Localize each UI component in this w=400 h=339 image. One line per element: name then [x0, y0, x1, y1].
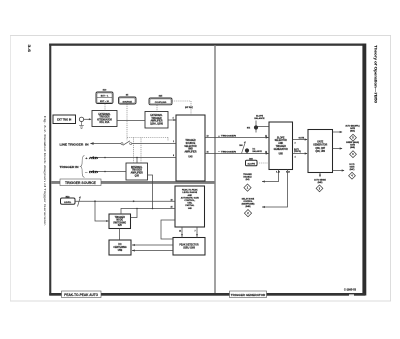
frame top border: [49, 44, 365, 46]
svg-text:Q90, U80: Q90, U80: [315, 151, 325, 153]
switch S5 SOURCE: [119, 95, 137, 105]
wire attenuator to ext amplifier: [117, 120, 145, 122]
diamond delay mode: [244, 210, 251, 217]
box internal trigger amplifier: [126, 163, 148, 180]
switch S25 COUPLING: [149, 96, 172, 105]
svg-text:PARTIAL: PARTIAL: [185, 204, 195, 207]
svg-text:AMPLIFIER: AMPLIFIER: [150, 120, 162, 123]
svg-text:R75: R75: [247, 127, 250, 129]
diamond sweep gate: [350, 151, 357, 158]
svg-text:GENERATOR: GENERATOR: [313, 144, 328, 147]
switch contacts line trigger: [121, 141, 132, 146]
ground symbol: [79, 122, 84, 129]
wire U85 gate out to gate generator: [293, 139, 308, 141]
svg-text:Theory of Operation—7B50: Theory of Operation—7B50: [374, 45, 378, 103]
svg-text:AND: AND: [188, 194, 193, 197]
wire auto sense stub: [319, 173, 321, 177]
svg-text:AMPLIFIER: AMPLIFIER: [184, 151, 196, 154]
svg-text:COUPLING: COUPLING: [155, 102, 167, 104]
box peak detector: [173, 238, 205, 256]
svg-text:EXTERNAL: EXTERNAL: [98, 113, 111, 116]
wire trigger mode top to U5B pin15: [121, 209, 175, 215]
wire level line to U5B pin18: [75, 200, 175, 202]
svg-text:BALANCE: BALANCE: [254, 117, 265, 120]
section label TRIGGER SOURCE: [60, 179, 101, 186]
wire U5B bottom pin to peak detector left: [181, 227, 183, 238]
dashed coupling to U45 top: [172, 101, 191, 115]
pot dc balance dot: [245, 148, 249, 152]
section divider vertical: [214, 45, 215, 293]
svg-text:(B4C): (B4C): [350, 168, 355, 171]
svg-text:S10: S10: [103, 90, 108, 92]
switch S10 ext div 10: [96, 90, 113, 104]
svg-text:TRIGGER: TRIGGER: [115, 217, 126, 219]
pot R50 level wiper: [78, 197, 81, 207]
pot slope balance dot: [254, 125, 258, 129]
svg-text:AND: AND: [188, 148, 193, 151]
dashed linkage drop a: [133, 138, 135, 163]
svg-text:TRIGGER SOURCE: TRIGGER SOURCE: [65, 181, 97, 185]
svg-text:7: 7: [195, 231, 196, 233]
svg-text:U85: U85: [279, 153, 284, 155]
dashed S10 to attenuator: [104, 104, 106, 111]
svg-text:3: 3: [295, 142, 296, 144]
svg-text:14: 14: [179, 230, 182, 233]
wire U5B bottom pin to peak detector right: [196, 227, 198, 238]
svg-text:GATE: GATE: [299, 136, 305, 139]
svg-text:SOURCE: SOURCE: [123, 101, 133, 103]
wire gate out auto: [333, 131, 343, 133]
wire gate out sweep: [333, 148, 343, 150]
svg-text:18: 18: [171, 199, 173, 201]
svg-text:SWITCHING: SWITCHING: [113, 222, 126, 224]
svg-text:SLOPE: SLOPE: [277, 137, 285, 139]
svg-text:MODE: MODE: [116, 220, 123, 222]
svg-text:16: 16: [207, 151, 209, 153]
svg-text:13: 13: [207, 135, 209, 137]
svg-text:− TRIGGER: − TRIGGER: [218, 152, 237, 154]
box external trigger amplifier: [145, 112, 168, 129]
svg-text:(B4A): (B4A): [350, 130, 355, 133]
diamond dlyd gate: [349, 172, 356, 179]
connector circle: [79, 117, 83, 121]
svg-text:TRIGGER: TRIGGER: [151, 118, 162, 120]
page edge shadow right: [390, 36, 392, 302]
svg-text:2: 2: [247, 211, 249, 215]
dashed source linkage horizontal: [127, 137, 168, 139]
section label PEAK-TO-PEAK AUTO: [62, 291, 102, 298]
svg-text:LEVEL: LEVEL: [64, 202, 72, 204]
svg-text:SELECTOR: SELECTOR: [275, 140, 288, 142]
dashed slope switch to U85: [257, 162, 269, 164]
diamond trigger disable: [244, 184, 251, 191]
svg-text:Q80, Q87: Q80, Q87: [315, 148, 326, 150]
svg-text:SOURCE: SOURCE: [186, 143, 196, 145]
wire gate out dlyd: [333, 170, 345, 172]
switch S60 SLOPE: [246, 158, 258, 166]
svg-text:EXT TRIG IN: EXT TRIG IN: [57, 119, 71, 122]
brace trigger in: [80, 156, 84, 178]
svg-text:EXT ÷ 10: EXT ÷ 10: [100, 100, 109, 103]
svg-text:3: 3: [319, 187, 321, 190]
svg-text:5: 5: [352, 137, 354, 140]
frame left border: [49, 44, 51, 296]
diamond auto sense: [316, 185, 323, 192]
wire junction down to trigger mode box: [95, 201, 108, 221]
svg-text:C-1995-53: C-1995-53: [344, 288, 357, 292]
switch R50 LEVEL: [61, 196, 76, 204]
svg-text:PEAK DETECTOR: PEAK DETECTOR: [179, 244, 199, 247]
svg-text:14: 14: [265, 150, 268, 153]
box U5B peak-to-peak level range: [175, 186, 205, 227]
svg-text:Fig. 3-2. Detailed block diagr: Fig. 3-2. Detailed block diagram of Trig…: [43, 116, 46, 227]
svg-text:1: 1: [247, 186, 249, 190]
svg-text:GATE: GATE: [317, 140, 324, 143]
wire U85 to trigger disable: [262, 170, 279, 182]
svg-text:SELECTOR: SELECTOR: [184, 146, 197, 148]
wire minus sig: [91, 171, 126, 173]
box U45 trigger source selector: [176, 115, 205, 181]
wire connector to attenuator: [84, 118, 91, 120]
svg-text:R10, R1A: R10, R1A: [100, 121, 110, 124]
dashed source switch linkage down: [126, 104, 128, 140]
svg-text:TRIGGER: TRIGGER: [276, 146, 287, 148]
svg-text:(B4D): (B4D): [318, 181, 323, 184]
frame bottom border: [49, 293, 365, 296]
svg-text:TRIGGER IN: TRIGGER IN: [60, 166, 79, 169]
page edge shadow top: [10, 35, 391, 37]
wire slope balance pot stem: [255, 121, 257, 133]
svg-text:PEAK-TO-PEAK: PEAK-TO-PEAK: [182, 189, 198, 192]
wire dc balance dot stem: [246, 151, 248, 154]
junction dots: [94, 157, 153, 210]
svg-text:ATTENUATOR: ATTENUATOR: [97, 118, 112, 121]
box external trigger attenuator: [92, 111, 117, 127]
dashed linkage drop b: [140, 138, 142, 163]
svg-text:6, 10: 6, 10: [276, 171, 280, 173]
dashed coupling to ext amplifier: [156, 105, 158, 112]
wire minus trigger: [205, 153, 269, 155]
svg-text:(B4): (B4): [246, 178, 250, 181]
bottom border notch: [349, 294, 354, 295]
svg-text:EXTERNAL: EXTERNAL: [150, 114, 163, 117]
wire plus sig stub to internal amp: [136, 158, 138, 164]
svg-text:(B4B): (B4B): [245, 205, 250, 208]
pot dc balance wiper: [242, 142, 246, 154]
svg-text:+ TRIGGER: + TRIGGER: [218, 136, 237, 138]
svg-text:TRIGGER: TRIGGER: [185, 140, 196, 142]
wire plus sig: [91, 157, 176, 159]
wire U85 to delay mode control: [262, 170, 288, 208]
wire plus trigger: [205, 137, 269, 139]
box dc centering: [109, 240, 131, 255]
svg-text:PEAK-TO-PEAK AUTO: PEAK-TO-PEAK AUTO: [64, 293, 98, 297]
svg-text:3-6: 3-6: [27, 45, 32, 54]
wire trigger mode bottom to dc centering: [119, 229, 121, 241]
svg-text:CENTERING: CENTERING: [113, 247, 127, 249]
svg-text:8: 8: [173, 155, 174, 157]
svg-text:AUTOMATIC GAIN: AUTOMATIC GAIN: [181, 196, 200, 199]
box gate generator: [308, 130, 333, 173]
svg-text:6: 6: [352, 153, 354, 156]
wire ext amplifier to U45 pin4: [168, 119, 176, 121]
svg-text:SLOPE: SLOPE: [247, 164, 255, 166]
wire peak detector to dc centering lower: [132, 250, 173, 252]
svg-text:TRIGGER: TRIGGER: [132, 170, 143, 172]
svg-text:INTERNAL: INTERNAL: [131, 166, 143, 169]
arrowheads: [89, 118, 345, 251]
svg-text:4: 4: [295, 155, 297, 158]
svg-text:S5: S5: [126, 95, 129, 97]
svg-text:(TRIG'D): (TRIG'D): [294, 151, 301, 153]
svg-text:R60: R60: [239, 145, 242, 147]
svg-text:S25: S25: [159, 96, 164, 98]
svg-text:15: 15: [171, 207, 173, 209]
wire line trigger in: [91, 143, 122, 145]
svg-text:Q20A, Q30B: Q20A, Q30B: [150, 122, 163, 125]
svg-text:4: 4: [173, 117, 175, 120]
svg-text:AMPLIFIER: AMPLIFIER: [131, 171, 143, 174]
svg-text:− B1B: − B1B: [85, 171, 99, 174]
svg-text:Q35: Q35: [135, 176, 140, 178]
svg-text:11: 11: [265, 135, 267, 137]
frame right border: [362, 44, 366, 296]
wire U5B left loop to peak detector: [161, 220, 175, 239]
wire U85 dlyd out to gate generator: [293, 153, 308, 155]
svg-text:LINE TRIGGER IN: LINE TRIGGER IN: [60, 143, 89, 146]
svg-text:U250, U260: U250, U260: [183, 248, 196, 250]
svg-text:DC: DC: [118, 244, 122, 246]
wire peak detector to dc centering upper: [132, 244, 173, 246]
svg-text:9, 16: 9, 16: [286, 171, 290, 173]
section label TRIGGER GENERATOR: [230, 291, 267, 298]
svg-text:EXT ÷ 1: EXT ÷ 1: [101, 94, 109, 97]
svg-text:TRIGGER: TRIGGER: [99, 117, 110, 119]
connector EXT TRIG IN: [53, 115, 76, 124]
svg-text:U5B: U5B: [118, 250, 123, 252]
box U85 slope selector and trigger generator: [269, 122, 293, 170]
wire slope balance pot to U85: [256, 126, 269, 128]
section divider horizontal trigger source: [51, 181, 215, 184]
svg-text:LEVEL RANGE: LEVEL RANGE: [182, 191, 197, 194]
page edge shadow bottom: [10, 300, 391, 302]
svg-text:(B4B): (B4B): [350, 146, 355, 149]
wire internal amp output down to U5B line: [148, 175, 153, 209]
svg-text:(INT RLY): (INT RLY): [185, 107, 193, 109]
box trigger mode switching: [109, 214, 131, 229]
svg-text:+ A1B: + A1B: [85, 157, 99, 160]
svg-text:4: 4: [351, 175, 353, 178]
svg-text:TRIGGER GENERATOR: TRIGGER GENERATOR: [231, 293, 266, 297]
wire trigger mode right to line2: [131, 209, 138, 218]
svg-text:AND: AND: [278, 142, 283, 145]
svg-text:GENERATOR: GENERATOR: [274, 148, 289, 151]
page edge shadow left: [10, 36, 12, 302]
diamond auto gate: [350, 134, 357, 141]
svg-text:1: 1: [173, 141, 174, 143]
svg-text:BALANCE: BALANCE: [253, 150, 263, 153]
dashed linkage drop c: [167, 138, 169, 142]
svg-text:U45: U45: [188, 156, 193, 159]
